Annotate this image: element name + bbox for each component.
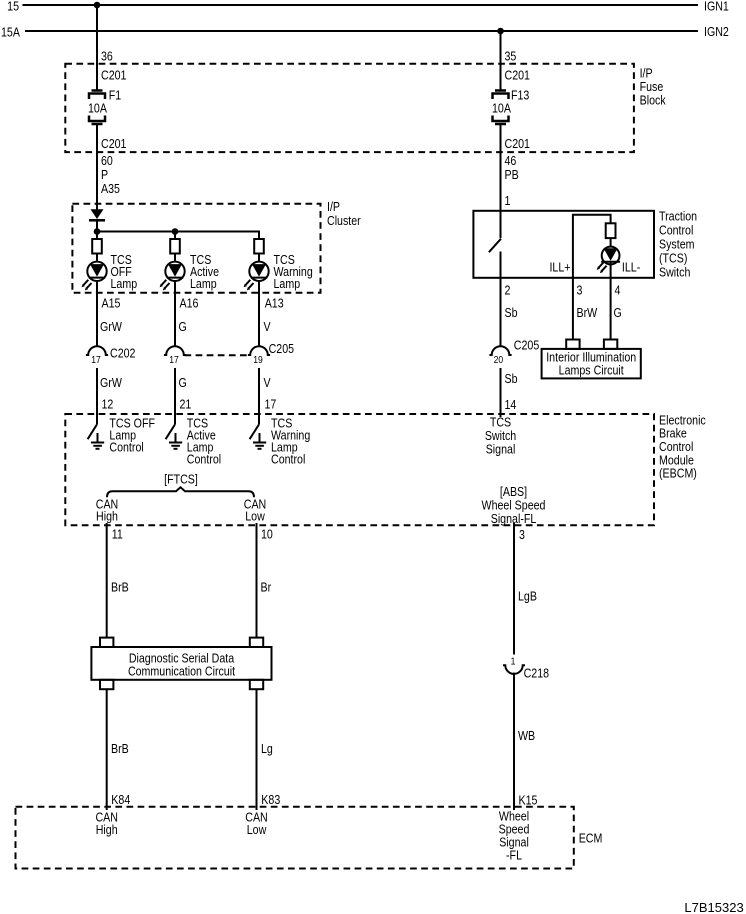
wire GrW pin 12 to EBCM [97, 368, 123, 425]
bus IGN2 [1, 24, 729, 40]
FTCS bracket [107, 471, 254, 497]
svg-text:Lg: Lg [261, 741, 273, 756]
node CAN High ECM [95, 809, 117, 837]
wire BrB to ECM pin K84 [107, 689, 131, 810]
svg-text:Communication Circuit: Communication Circuit [128, 664, 236, 679]
ECM box [16, 807, 603, 869]
EBCM box [65, 412, 706, 525]
svg-text:Block: Block [640, 92, 666, 107]
switch TCS Active lamp control [166, 415, 222, 466]
svg-text:Sb: Sb [505, 371, 518, 386]
svg-text:V: V [264, 319, 271, 334]
wire pin A15 GrW to connector C202 [97, 281, 123, 347]
wire drop to lamp 3 [258, 231, 260, 240]
lamp TCS Warning Lamp (resistor + LED + rays) [244, 239, 313, 291]
svg-text:11: 11 [112, 526, 123, 541]
label ABS Wheel Speed Signal-FL [482, 484, 546, 526]
svg-text:Switch: Switch [659, 264, 690, 279]
svg-text:Low: Low [245, 509, 265, 524]
ground TCS Warning lamp control [253, 433, 266, 449]
svg-text:21: 21 [180, 396, 192, 411]
svg-text:I/P: I/P [327, 199, 340, 214]
svg-text:Lamp: Lamp [190, 276, 217, 291]
node CAN Low label [244, 496, 266, 524]
wire G pin 21 to EBCM [175, 368, 192, 425]
svg-text:(EBCM): (EBCM) [659, 466, 697, 481]
svg-text:A16: A16 [180, 295, 199, 310]
svg-text:V: V [264, 375, 271, 390]
svg-text:4: 4 [615, 282, 621, 297]
wire pin 3 BrW to illumination circuit [573, 278, 598, 340]
svg-text:A13: A13 [265, 295, 284, 310]
svg-text:C201: C201 [101, 67, 127, 82]
svg-text:10A: 10A [492, 100, 511, 115]
svg-text:Control: Control [659, 222, 693, 237]
svg-text:ILL+: ILL+ [549, 259, 570, 274]
svg-text:C201: C201 [505, 136, 531, 151]
wire pin 10 Br to diagnostic circuit [257, 523, 274, 638]
svg-text:G: G [179, 319, 187, 334]
svg-text:A15: A15 [102, 295, 121, 310]
svg-text:Lamps Circuit: Lamps Circuit [559, 362, 625, 377]
junction node on IGN2 [497, 28, 504, 35]
node CAN Low ECM [245, 809, 267, 837]
wire LED to pin 4 [610, 262, 612, 278]
svg-text:60: 60 [101, 153, 113, 168]
svg-text:3: 3 [577, 282, 583, 297]
switch TCS Warning lamp control [250, 415, 311, 466]
wire resistor to LED [610, 238, 612, 247]
svg-text:GrW: GrW [100, 319, 123, 334]
svg-text:Control: Control [271, 451, 305, 466]
I/P fuse block box [65, 64, 665, 152]
svg-text:ILL-: ILL- [622, 259, 640, 274]
svg-text:High: High [96, 822, 118, 837]
svg-text:C205: C205 [514, 337, 540, 352]
wire pin 36 from IGN1 to fuse F1 [97, 5, 113, 90]
wire 46 PB pin 1 to TCS switch [501, 124, 519, 211]
svg-text:Cluster: Cluster [327, 213, 361, 228]
svg-text:PB: PB [505, 167, 519, 182]
svg-text:ECM: ECM [579, 830, 603, 845]
LED illumination lamp in TCS switch [597, 247, 620, 274]
svg-text:F1: F1 [109, 87, 122, 102]
svg-text:Signal: Signal [486, 441, 516, 456]
svg-text:C202: C202 [110, 345, 135, 360]
Diagnostic Serial Data Communication Circuit box [91, 647, 271, 680]
svg-text:BrB: BrB [111, 579, 129, 594]
junction node on IGN1 [94, 2, 101, 9]
node Wheel Speed Signal -FL ECM [499, 808, 530, 862]
svg-text:BrB: BrB [111, 741, 129, 756]
svg-text:-FL: -FL [506, 847, 522, 862]
Interior Illumination Lamps Circuit box [542, 349, 641, 379]
svg-text:12: 12 [102, 396, 114, 411]
svg-text:10A: 10A [88, 100, 107, 115]
svg-text:C218: C218 [524, 665, 550, 680]
dashed link between connectors [185, 354, 250, 356]
svg-text:P: P [101, 167, 108, 182]
lamp TCS Active Lamp (resistor + LED + rays) [160, 239, 220, 291]
svg-text:K83: K83 [261, 792, 280, 807]
terminal tab pin 4 [604, 340, 617, 349]
svg-text:G: G [614, 305, 622, 320]
svg-text:35: 35 [505, 48, 517, 63]
svg-text:K84: K84 [111, 792, 130, 807]
terminal tab diag bottom left [100, 680, 113, 689]
svg-text:Br: Br [261, 579, 272, 594]
svg-text:G: G [179, 375, 187, 390]
Traction Control System (TCS) Switch box [473, 208, 697, 279]
svg-text:20: 20 [494, 354, 504, 366]
wire Lg to ECM pin K83 [257, 689, 281, 810]
diode D1 cluster input [89, 209, 105, 239]
svg-text:17: 17 [265, 396, 277, 411]
svg-text:3: 3 [519, 527, 525, 542]
connector C202 pin 17 [86, 345, 136, 366]
svg-text:C205: C205 [269, 341, 295, 356]
wire pin A16 G to connector [175, 281, 199, 347]
terminal tab pin 3 [566, 340, 579, 349]
svg-text:IGN2: IGN2 [704, 24, 729, 39]
terminal tab diag bottom right [250, 680, 263, 689]
ground TCS OFF lamp control [91, 433, 104, 449]
ground TCS Active lamp control [169, 433, 182, 449]
wire pin 2 Sb to connector C205 [501, 278, 518, 347]
svg-text:Lamp: Lamp [274, 276, 301, 291]
svg-text:17: 17 [91, 354, 101, 366]
svg-text:C201: C201 [505, 67, 531, 82]
label TCS Switch Signal [485, 414, 516, 456]
connector C205 pin 19 [248, 341, 295, 366]
svg-text:WB: WB [518, 728, 535, 743]
switch S1 inside TCS box [489, 211, 501, 278]
wire Sb pin 14 to EBCM [501, 368, 518, 417]
node lamp bus middle [172, 228, 179, 235]
svg-text:A35: A35 [101, 181, 120, 196]
svg-text:19: 19 [253, 354, 263, 366]
switch TCS OFF lamp control [88, 415, 155, 454]
node CAN High label [96, 496, 118, 524]
svg-text:LgB: LgB [518, 588, 537, 603]
wire pin 11 BrB to diagnostic circuit [107, 523, 129, 638]
svg-text:F13: F13 [511, 87, 530, 102]
resistor for illumination LED [606, 223, 616, 238]
svg-text:17: 17 [169, 354, 179, 366]
svg-text:10: 10 [261, 526, 273, 541]
svg-text:Control: Control [187, 451, 221, 466]
svg-text:GrW: GrW [100, 375, 123, 390]
I/P cluster box [72, 199, 360, 293]
wire pin 35 from IGN2 to fuse F13 [501, 31, 517, 90]
connector C218 pin 1 [503, 656, 549, 681]
bus IGN1 [7, 0, 729, 14]
svg-text:L7B15323: L7B15323 [684, 900, 743, 914]
svg-text:36: 36 [101, 48, 113, 63]
svg-text:Low: Low [247, 822, 267, 837]
node lamp bus left [94, 228, 101, 235]
terminal tab diag top left [100, 638, 113, 647]
svg-text:BrW: BrW [577, 305, 598, 320]
fuse F1 10A [88, 87, 122, 124]
wire pin 4 G to illumination circuit [611, 278, 622, 340]
svg-text:1: 1 [505, 193, 511, 208]
svg-text:Traction: Traction [659, 208, 697, 223]
svg-text:Sb: Sb [505, 305, 518, 320]
svg-text:15: 15 [7, 0, 19, 14]
svg-text:High: High [96, 509, 118, 524]
wire WB to ECM pin K15 [514, 673, 538, 810]
svg-text:IGN1: IGN1 [704, 0, 729, 14]
connector C205 pin 20 [489, 337, 539, 366]
fuse F13 10A [492, 87, 530, 124]
wire pin A13 V to connector C205 [259, 281, 284, 347]
connector pin 17 (middle) [164, 346, 186, 366]
wire pin 3 LgB to connector C218 [514, 523, 537, 655]
svg-text:System: System [659, 236, 695, 251]
lamp TCS OFF Lamp (resistor + LED + rays) [82, 239, 138, 291]
svg-text:1: 1 [511, 656, 516, 668]
terminal tab diag top right [250, 638, 263, 647]
wire lamp bus horizontal [97, 231, 259, 233]
wire ILL+ branch inside TCS box [573, 215, 611, 278]
svg-text:2: 2 [505, 282, 511, 297]
svg-text:14: 14 [505, 397, 517, 412]
wire drop to lamp 2 [174, 232, 176, 240]
wire V pin 17 to EBCM [259, 368, 276, 425]
svg-text:15A: 15A [1, 24, 20, 39]
svg-text:46: 46 [505, 153, 517, 168]
svg-text:[FTCS]: [FTCS] [164, 471, 198, 486]
svg-text:Control: Control [109, 439, 143, 454]
svg-text:K15: K15 [519, 793, 538, 808]
svg-text:(TCS): (TCS) [659, 250, 687, 265]
svg-text:Lamp: Lamp [111, 276, 138, 291]
svg-text:C201: C201 [101, 136, 127, 151]
wire 60 P A35 from fuse F1 to I/P cluster [97, 124, 120, 210]
